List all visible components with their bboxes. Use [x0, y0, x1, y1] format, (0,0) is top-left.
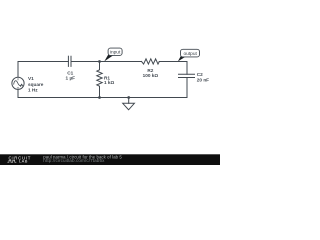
- svg-text:C2: C2: [197, 72, 203, 77]
- svg-text:1 Hz: 1 Hz: [28, 88, 38, 93]
- flag input pointer: [104, 55, 113, 62]
- node junction dot at bottom of R1: [98, 96, 101, 99]
- flag input box: [108, 48, 122, 55]
- svg-text:LAB: LAB: [19, 159, 28, 164]
- wire bottom horizontal: [18, 97, 187, 99]
- voltage source V1 waveform: [14, 81, 22, 86]
- wire top left horizontal (V1 top to C1 left plate): [18, 61, 68, 63]
- capacitor C2 bottom plate: [179, 77, 195, 79]
- svg-text:http://circuitlab.com/c/7tab5x: http://circuitlab.com/c/7tab5x: [43, 158, 105, 163]
- svg-text:R2: R2: [147, 68, 153, 73]
- voltage source V1 minus mark: [17, 87, 19, 89]
- footer CircuitLab logo squarewave: [7, 160, 16, 162]
- wire right vertical upper (corner down to C2 top plate): [186, 62, 188, 75]
- footer bar: [0, 154, 220, 165]
- voltage source V1 circle: [12, 77, 24, 89]
- wire left vertical upper (top wire down to V1 top): [17, 62, 19, 78]
- svg-text:output: output: [184, 51, 198, 57]
- flag output box: [181, 49, 200, 57]
- capacitor C2 top plate: [179, 73, 195, 75]
- voltage source V1 arrow tip: [21, 84, 23, 86]
- svg-text:20 nF: 20 nF: [197, 78, 209, 83]
- resistor R2 zigzag: [142, 59, 160, 64]
- node junction dot at ground: [127, 96, 130, 99]
- voltage source V1 plus mark: [17, 78, 19, 80]
- capacitor C1 right plate: [70, 56, 72, 66]
- flag output pointer: [178, 56, 185, 62]
- wire top middle (C1 right plate to R2 left lead): [71, 61, 142, 63]
- svg-text:V1: V1: [28, 76, 34, 81]
- resistor R1 zigzag: [97, 62, 102, 98]
- ground symbol triangle: [123, 103, 135, 110]
- capacitor C1 left plate: [67, 56, 69, 66]
- node junction dot at input (top of R1): [98, 60, 101, 63]
- svg-text:1 µF: 1 µF: [66, 76, 76, 81]
- ground symbol stem: [128, 98, 130, 104]
- svg-text:square: square: [28, 82, 44, 87]
- svg-text:input: input: [110, 50, 121, 56]
- wire top right (R2 right lead to corner): [159, 61, 187, 63]
- wire left vertical lower (V1 bottom to bottom wire): [17, 90, 19, 98]
- wire right vertical lower (C2 bottom plate to bottom wire): [186, 78, 188, 98]
- svg-text:100 kΩ: 100 kΩ: [143, 73, 159, 78]
- svg-text:1 kΩ: 1 kΩ: [104, 80, 115, 85]
